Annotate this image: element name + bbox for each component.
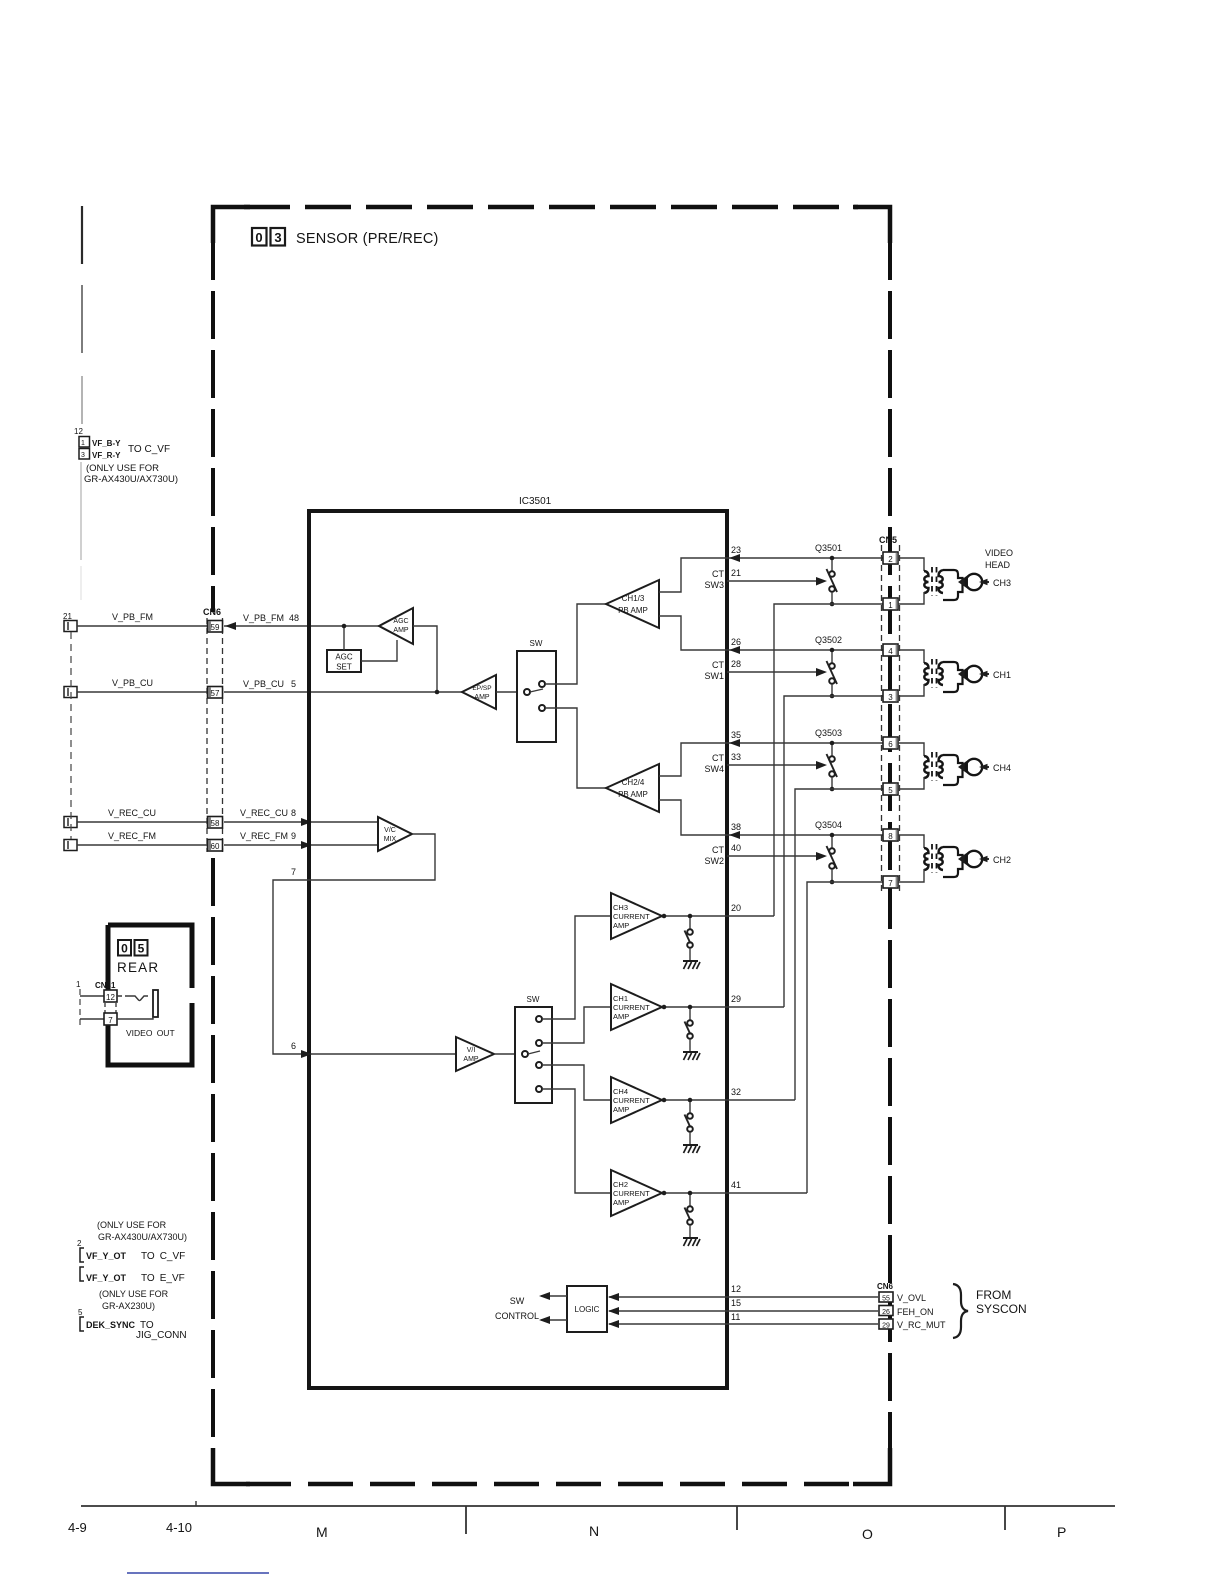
svg-text:LOGIC: LOGIC xyxy=(575,1305,600,1314)
svg-text:V_PB_CU: V_PB_CU xyxy=(112,678,153,688)
wire CH1/3 PB AMP upper input to pin 23 xyxy=(659,558,727,592)
block number 5 box (rear) xyxy=(135,940,148,956)
svg-text:CONTROL: CONTROL xyxy=(495,1311,539,1321)
video head CH4 transformer and head xyxy=(898,743,1011,789)
boundary right edge xyxy=(888,232,892,1460)
IC U3501 body box xyxy=(309,511,727,1388)
connector CN6 pin 58 box xyxy=(208,817,223,829)
wire SW1 to CH2/4 PB AMP xyxy=(545,708,606,788)
svg-text:CH1/3: CH1/3 xyxy=(622,594,645,603)
svg-text:GR-AX230U): GR-AX230U) xyxy=(102,1301,155,1311)
svg-text:AMP: AMP xyxy=(393,627,409,634)
svg-text:AGC: AGC xyxy=(393,618,408,625)
svg-text:CT: CT xyxy=(712,569,724,579)
wire V/I AMP to SW2 xyxy=(494,1053,515,1055)
svg-text:(ONLY USE FOR: (ONLY USE FOR xyxy=(86,463,159,474)
svg-text:11: 11 xyxy=(731,1312,740,1322)
mute switch and ground for CH2 xyxy=(683,1191,700,1246)
wire pin 26 row to CN5 pin 4 xyxy=(727,649,883,651)
connector CN5 pin 7 box xyxy=(883,876,898,888)
mute switch and ground for CH1 xyxy=(683,1005,700,1060)
svg-text:O: O xyxy=(862,1526,873,1542)
svg-text:8: 8 xyxy=(888,832,893,841)
wire SW2 to CH2 CURRENT AMP xyxy=(542,1089,611,1193)
wire V_REC_CU right segment with arrow into IC pin 8 xyxy=(224,821,378,823)
transistor Q3504 switch xyxy=(815,820,842,884)
svg-text:AMP: AMP xyxy=(613,921,629,930)
wire bus pin 20 up to CN5 pin 1 row xyxy=(774,604,883,916)
op-amp AGC AMP xyxy=(379,608,413,644)
connector CN5 pin 3 box xyxy=(883,690,898,702)
svg-text:V_PB_FM: V_PB_FM xyxy=(243,613,284,623)
connector CN5 pin 8 box xyxy=(883,829,898,841)
svg-text:CH4: CH4 xyxy=(613,1087,628,1096)
svg-text:6: 6 xyxy=(291,1041,296,1051)
zone ruler tick N/O xyxy=(736,1506,738,1530)
svg-text:V_RC_MUT: V_RC_MUT xyxy=(897,1320,946,1330)
svg-text:V_REC_CU: V_REC_CU xyxy=(240,808,288,818)
svg-text:32: 32 xyxy=(731,1087,741,1097)
svg-text:(ONLY USE FOR: (ONLY USE FOR xyxy=(97,1220,167,1230)
svg-text:0: 0 xyxy=(255,230,262,245)
svg-text:26: 26 xyxy=(731,637,741,647)
svg-text:Q3501: Q3501 xyxy=(815,543,842,553)
svg-text:CN6: CN6 xyxy=(877,1282,894,1291)
boundary top-left corner xyxy=(213,207,250,243)
svg-text:P: P xyxy=(1057,1524,1066,1540)
wire FEH_ON pin 15 into LOGIC xyxy=(609,1310,878,1312)
svg-text:48: 48 xyxy=(289,613,299,623)
svg-text:V/C: V/C xyxy=(384,827,396,834)
wire V_RC_MUT pin 11 into LOGIC xyxy=(609,1323,878,1325)
wire V_REC_FM right segment with arrow into IC pin 9 xyxy=(224,844,378,846)
svg-text:CH2: CH2 xyxy=(613,1180,628,1189)
switch SW2 throw contact 1 xyxy=(536,1016,542,1022)
ground xyxy=(683,960,698,962)
block number 0 box xyxy=(252,228,267,246)
svg-text:CT: CT xyxy=(712,660,724,670)
ground xyxy=(683,1051,698,1053)
left page-boundary line segment 5 xyxy=(80,566,82,600)
svg-text:Q3503: Q3503 xyxy=(815,728,842,738)
svg-text:PB AMP: PB AMP xyxy=(618,790,648,799)
wire pin 38 row to CN5 pin 8 xyxy=(727,834,883,836)
svg-text:SW1: SW1 xyxy=(704,671,724,681)
op-amp CH2 CURRENT AMP xyxy=(611,1170,662,1216)
mute switch and ground for CH3 xyxy=(683,914,700,969)
svg-text:SET: SET xyxy=(336,663,352,672)
wire AGC SET feedback to AGC AMP xyxy=(361,640,397,661)
connector CN6 pin 55 box xyxy=(879,1292,893,1302)
svg-text:V_PB_FM: V_PB_FM xyxy=(112,612,153,622)
svg-text:0: 0 xyxy=(121,942,128,956)
white gap in REAR border between CN31 pins xyxy=(104,1003,117,1014)
svg-text:FEH_ON: FEH_ON xyxy=(897,1307,934,1317)
svg-text:28: 28 xyxy=(731,659,741,669)
svg-text:CN31: CN31 xyxy=(95,981,116,990)
svg-text:V/I: V/I xyxy=(467,1047,476,1054)
video head CH1 transformer and head xyxy=(898,650,1011,696)
svg-text:58: 58 xyxy=(211,819,220,828)
wire to CN31 pin 12 xyxy=(80,995,104,997)
connector CN6 pin 57 box xyxy=(208,687,223,699)
svg-text:V_REC_FM: V_REC_FM xyxy=(108,831,156,841)
svg-text:29: 29 xyxy=(882,1323,890,1330)
svg-text:TO C_VF: TO C_VF xyxy=(141,1251,185,1262)
svg-text:21: 21 xyxy=(63,612,72,621)
svg-text:20: 20 xyxy=(731,903,741,913)
wire V_PB_FM right segment with arrow into CN6 pin 59 xyxy=(224,625,379,627)
svg-text:3: 3 xyxy=(888,693,893,702)
phono jack sleeve bracket xyxy=(153,990,158,1017)
svg-text:60: 60 xyxy=(211,842,220,851)
connector CN5 pin 4 box xyxy=(883,644,898,656)
svg-text:SENSOR (PRE/REC): SENSOR (PRE/REC) xyxy=(296,231,439,247)
svg-text:23: 23 xyxy=(731,545,741,555)
edge connector dashed link line xyxy=(70,632,72,839)
svg-text:7: 7 xyxy=(291,867,296,877)
svg-text:4: 4 xyxy=(888,647,893,656)
svg-text:(ONLY USE FOR: (ONLY USE FOR xyxy=(99,1289,169,1299)
svg-text:SW: SW xyxy=(527,995,540,1004)
mute switch and ground for CH4 xyxy=(683,1098,700,1153)
boundary left edge upper xyxy=(211,232,215,612)
wire CH3 CURRENT AMP output pin 20 xyxy=(662,915,774,917)
svg-text:AGC: AGC xyxy=(335,653,353,662)
svg-text:AMP: AMP xyxy=(613,1105,629,1114)
svg-text:CH1: CH1 xyxy=(993,670,1011,680)
svg-text:5: 5 xyxy=(78,1308,83,1317)
switch SW1 throw contact lower xyxy=(539,705,545,711)
wire pin 23 row to CN5 pin 2 xyxy=(727,557,883,559)
block number 0 box (rear) xyxy=(118,940,131,956)
svg-text:4-9: 4-9 xyxy=(68,1520,87,1535)
svg-text:CURRENT: CURRENT xyxy=(613,1003,650,1012)
ground xyxy=(683,1237,698,1239)
svg-text:55: 55 xyxy=(882,1296,890,1303)
svg-text:N: N xyxy=(589,1523,599,1539)
svg-text:29: 29 xyxy=(731,994,741,1004)
wire control pin 21 to Q3501 xyxy=(727,580,817,582)
svg-text:2: 2 xyxy=(77,1239,82,1248)
svg-text:57: 57 xyxy=(211,689,220,698)
transistor Q3503 switch xyxy=(815,728,842,791)
wire control pin 28 to Q3502 xyxy=(727,671,817,673)
connector CN6 pin 59 box xyxy=(208,621,223,633)
svg-text:35: 35 xyxy=(731,730,741,740)
switch block SW1 box xyxy=(517,651,556,742)
svg-text:JIG_CONN: JIG_CONN xyxy=(136,1330,187,1341)
svg-text:M: M xyxy=(316,1524,328,1540)
node junction on V_PB_CU row xyxy=(435,690,440,695)
node junction on V_PB_FM at AGC SET tap xyxy=(342,624,347,629)
video head CH2 transformer and head xyxy=(898,835,1011,882)
connector CN31 pin 7 box xyxy=(104,1013,117,1025)
svg-text:REAR: REAR xyxy=(117,960,159,975)
svg-text:40: 40 xyxy=(731,843,741,853)
connector CN5 pin 1 box xyxy=(883,598,898,610)
wire V_PB_CU right segment xyxy=(224,691,462,693)
boundary top-right corner xyxy=(853,207,890,243)
connector CN6 left channel dashed lines xyxy=(206,618,208,852)
svg-text:Q3504: Q3504 xyxy=(815,820,842,830)
wire CH1 CURRENT AMP output pin 29 xyxy=(662,1006,784,1008)
svg-text:2: 2 xyxy=(888,555,893,564)
connector CN6 pin 60 box xyxy=(208,840,223,852)
switch SW2 throw contact 4 xyxy=(536,1086,542,1092)
brace from syscon xyxy=(953,1284,968,1338)
zone ruler tick at 4-10 xyxy=(195,1501,197,1506)
op-amp CH3 CURRENT AMP xyxy=(611,893,662,939)
svg-text:VF_B-Y: VF_B-Y xyxy=(92,439,121,448)
svg-text:CURRENT: CURRENT xyxy=(613,1096,650,1105)
svg-text:CH1: CH1 xyxy=(613,994,628,1003)
svg-text:VIDEO: VIDEO xyxy=(985,548,1013,558)
svg-text:SW2: SW2 xyxy=(704,856,724,866)
wire V_REC_FM left segment xyxy=(77,844,208,846)
op-amp CH1 CURRENT AMP xyxy=(611,984,662,1030)
wire V_REC_CU left segment xyxy=(77,821,208,823)
svg-text:5: 5 xyxy=(138,942,145,956)
connector CN6 pin 29 box xyxy=(879,1319,893,1329)
wire CH2 CURRENT AMP output pin 41 xyxy=(662,1192,807,1194)
switch block SW2 box xyxy=(515,1007,552,1103)
svg-text:SW: SW xyxy=(510,1296,525,1306)
svg-text:IC3501: IC3501 xyxy=(519,496,552,507)
boundary bottom-left corner xyxy=(213,1448,250,1484)
svg-text:TO C_VF: TO C_VF xyxy=(128,444,170,455)
wire LOGIC sw control arrow 1 xyxy=(541,1295,567,1297)
svg-text:3: 3 xyxy=(81,452,85,459)
svg-text:AMP: AMP xyxy=(474,694,490,701)
svg-text:1: 1 xyxy=(81,440,85,447)
wire V_PB_FM left segment xyxy=(77,625,208,627)
connector CN5 channel dashed lines xyxy=(881,545,883,893)
svg-text:21: 21 xyxy=(731,568,741,578)
transistor Q3501 switch xyxy=(815,543,842,606)
connector CN31 pin 12 box xyxy=(104,990,117,1002)
edge connector half box row2 xyxy=(64,687,77,698)
op-amp EP/SP AMP xyxy=(462,675,496,709)
svg-text:12: 12 xyxy=(74,427,83,436)
op-amp CH1/3 PB AMP xyxy=(606,580,659,628)
boundary bottom edge xyxy=(246,1482,860,1487)
switch SW2 pole contact xyxy=(522,1051,528,1057)
wire pin 7 to sleeve xyxy=(117,1017,153,1019)
wire bus pin 29 up to CN5 pin 3 row xyxy=(784,696,883,1007)
boundary top edge xyxy=(244,205,858,210)
svg-text:59: 59 xyxy=(211,623,220,632)
arrow into IC pin 6 xyxy=(301,1050,312,1058)
net VF_Y_OT to E_VF xyxy=(80,1267,84,1281)
svg-text:GR-AX430U/AX730U): GR-AX430U/AX730U) xyxy=(84,474,178,485)
svg-text:12: 12 xyxy=(731,1284,741,1294)
svg-text:HEAD: HEAD xyxy=(985,560,1011,570)
svg-text:V_OVL: V_OVL xyxy=(897,1293,926,1303)
switch SW2 throw contact 3 xyxy=(536,1062,542,1068)
op-amp V/C MIX xyxy=(378,817,412,851)
block 05 REAR box xyxy=(108,925,192,1065)
transistor Q3502 switch xyxy=(815,635,842,698)
svg-text:1: 1 xyxy=(888,601,893,610)
wire AGC AMP input from V_PB_CU xyxy=(413,626,437,692)
svg-text:26: 26 xyxy=(882,1309,890,1316)
block 03 SENSOR dashed boundary box xyxy=(213,207,890,1484)
footer blue underline xyxy=(127,1572,269,1574)
svg-text:CURRENT: CURRENT xyxy=(613,1189,650,1198)
wire SW2 to CH3 CURRENT AMP xyxy=(542,916,611,1019)
svg-text:GR-AX430U/AX730U): GR-AX430U/AX730U) xyxy=(98,1232,187,1242)
wire CH1/3 PB AMP lower input to pin 26 xyxy=(659,616,727,650)
op-amp V/I AMP xyxy=(456,1037,494,1071)
op-amp CH4 CURRENT AMP xyxy=(611,1077,662,1123)
wire LOGIC sw control arrow 2 xyxy=(541,1319,567,1321)
wire CH2/4 PB AMP lower input to pin 38 xyxy=(659,800,727,835)
svg-text:3: 3 xyxy=(274,230,281,245)
wire V_PB_CU left segment xyxy=(77,691,208,693)
left page-boundary line segment 4 xyxy=(80,462,82,560)
svg-text:CT: CT xyxy=(712,753,724,763)
svg-text:CN6: CN6 xyxy=(203,607,221,617)
connector VF pin 3 box xyxy=(79,449,90,460)
wire pin 35 row to CN5 pin 6 xyxy=(727,742,883,744)
svg-text:VF_Y_OT: VF_Y_OT xyxy=(86,1273,127,1283)
wire bus pin 41 up to CN5 pin 7 row xyxy=(807,882,883,1193)
wire control pin 40 to Q3504 xyxy=(727,855,817,857)
svg-text:PB AMP: PB AMP xyxy=(618,606,648,615)
svg-text:Q3502: Q3502 xyxy=(815,635,842,645)
svg-text:VF_R-Y: VF_R-Y xyxy=(92,451,121,460)
connector CN6 pin 26 box xyxy=(879,1306,893,1316)
wire bus pin 32 up to CN5 pin 5 row xyxy=(795,789,883,1100)
svg-text:SW4: SW4 xyxy=(704,764,724,774)
phono jack VIDEO OUT center contact xyxy=(117,995,129,997)
connector CN5 pin 2 box xyxy=(883,552,898,564)
svg-text:TO E_VF: TO E_VF xyxy=(141,1273,185,1284)
svg-text:41: 41 xyxy=(731,1180,741,1190)
block AGC SET xyxy=(327,650,361,672)
op-amp CH2/4 PB AMP xyxy=(606,764,659,812)
wire SW2 to CH1 CURRENT AMP xyxy=(542,1007,611,1043)
svg-text:CH4: CH4 xyxy=(993,763,1011,773)
svg-text:CH3: CH3 xyxy=(993,578,1011,588)
left page-boundary line segment 2 xyxy=(81,285,83,353)
svg-text:5: 5 xyxy=(888,786,893,795)
wire CH2/4 PB AMP upper input to pin 35 xyxy=(659,743,727,776)
video head CH3 transformer and head xyxy=(898,558,1011,604)
svg-text:CH2: CH2 xyxy=(993,855,1011,865)
svg-text:CH3: CH3 xyxy=(613,903,628,912)
block number 3 box xyxy=(271,228,286,246)
wire SW1 to CH1/3 PB AMP xyxy=(545,604,606,684)
edge connector half box row3 xyxy=(64,817,77,828)
svg-text:V_REC_CU: V_REC_CU xyxy=(108,808,156,818)
connector CN5 pin 5 box xyxy=(883,783,898,795)
wire EP/SP AMP to SW1 xyxy=(496,691,517,693)
boundary left edge lower xyxy=(211,858,215,1460)
left page-boundary line segment 1 xyxy=(81,206,83,264)
wire V/C MIX output loop pin 7 to pin 6 xyxy=(273,834,456,1054)
svg-text:CN5: CN5 xyxy=(879,535,897,545)
svg-text:4-10: 4-10 xyxy=(166,1520,192,1535)
svg-text:38: 38 xyxy=(731,822,741,832)
switch SW1 throw contact upper xyxy=(539,681,545,687)
svg-text:9: 9 xyxy=(291,831,296,841)
svg-text:FROM: FROM xyxy=(976,1288,1011,1302)
svg-text:MIX: MIX xyxy=(384,836,397,843)
wire CH4 CURRENT AMP output pin 32 xyxy=(662,1099,795,1101)
svg-text:AMP: AMP xyxy=(463,1056,479,1063)
svg-text:6: 6 xyxy=(888,740,893,749)
edge connector half box row1 xyxy=(64,621,77,632)
svg-text:EP/SP: EP/SP xyxy=(472,685,491,692)
edge connector half box row4 xyxy=(64,840,77,851)
svg-text:12: 12 xyxy=(106,993,115,1002)
svg-text:SW: SW xyxy=(530,639,543,648)
svg-text:CURRENT: CURRENT xyxy=(613,912,650,921)
wire control pin 33 to Q3503 xyxy=(727,764,817,766)
svg-text:33: 33 xyxy=(731,752,741,762)
ground xyxy=(683,1144,698,1146)
svg-text:DEK_SYNC: DEK_SYNC xyxy=(86,1320,136,1330)
zone ruler tick O/P xyxy=(1004,1506,1006,1530)
svg-text:7: 7 xyxy=(108,1016,113,1025)
svg-text:CH2/4: CH2/4 xyxy=(622,778,645,787)
wire SW2 to CH4 CURRENT AMP xyxy=(542,1065,611,1100)
svg-text:SYSCON: SYSCON xyxy=(976,1302,1027,1316)
svg-text:1: 1 xyxy=(76,980,81,989)
left page-boundary line segment 3 xyxy=(81,376,83,424)
block LOGIC xyxy=(567,1286,607,1332)
wire to CN31 pin 7 xyxy=(80,1018,104,1020)
svg-text:VF_Y_OT: VF_Y_OT xyxy=(86,1251,127,1261)
svg-text:VIDEO OUT: VIDEO OUT xyxy=(126,1028,175,1038)
connector CN5 pin 6 box xyxy=(883,737,898,749)
svg-text:8: 8 xyxy=(291,808,296,818)
connector VF pin 1 box xyxy=(79,437,90,448)
switch SW2 throw contact 2 xyxy=(536,1040,542,1046)
svg-text:5: 5 xyxy=(291,679,296,689)
boundary bottom-right corner xyxy=(853,1448,890,1484)
svg-text:SW3: SW3 xyxy=(704,580,724,590)
svg-text:AMP: AMP xyxy=(613,1012,629,1021)
svg-text:7: 7 xyxy=(888,879,893,888)
wire AGC SET top tap xyxy=(343,626,345,650)
zone ruler tick M/N xyxy=(465,1506,467,1534)
svg-text:V_PB_CU: V_PB_CU xyxy=(243,679,284,689)
zone ruler baseline xyxy=(81,1505,1115,1507)
svg-text:15: 15 xyxy=(731,1298,741,1308)
switch SW1 pole contact xyxy=(524,689,530,695)
svg-text:V_REC_FM: V_REC_FM xyxy=(240,831,288,841)
svg-text:CT: CT xyxy=(712,845,724,855)
svg-text:AMP: AMP xyxy=(613,1198,629,1207)
wire V_OVL pin 12 into LOGIC xyxy=(609,1296,878,1298)
